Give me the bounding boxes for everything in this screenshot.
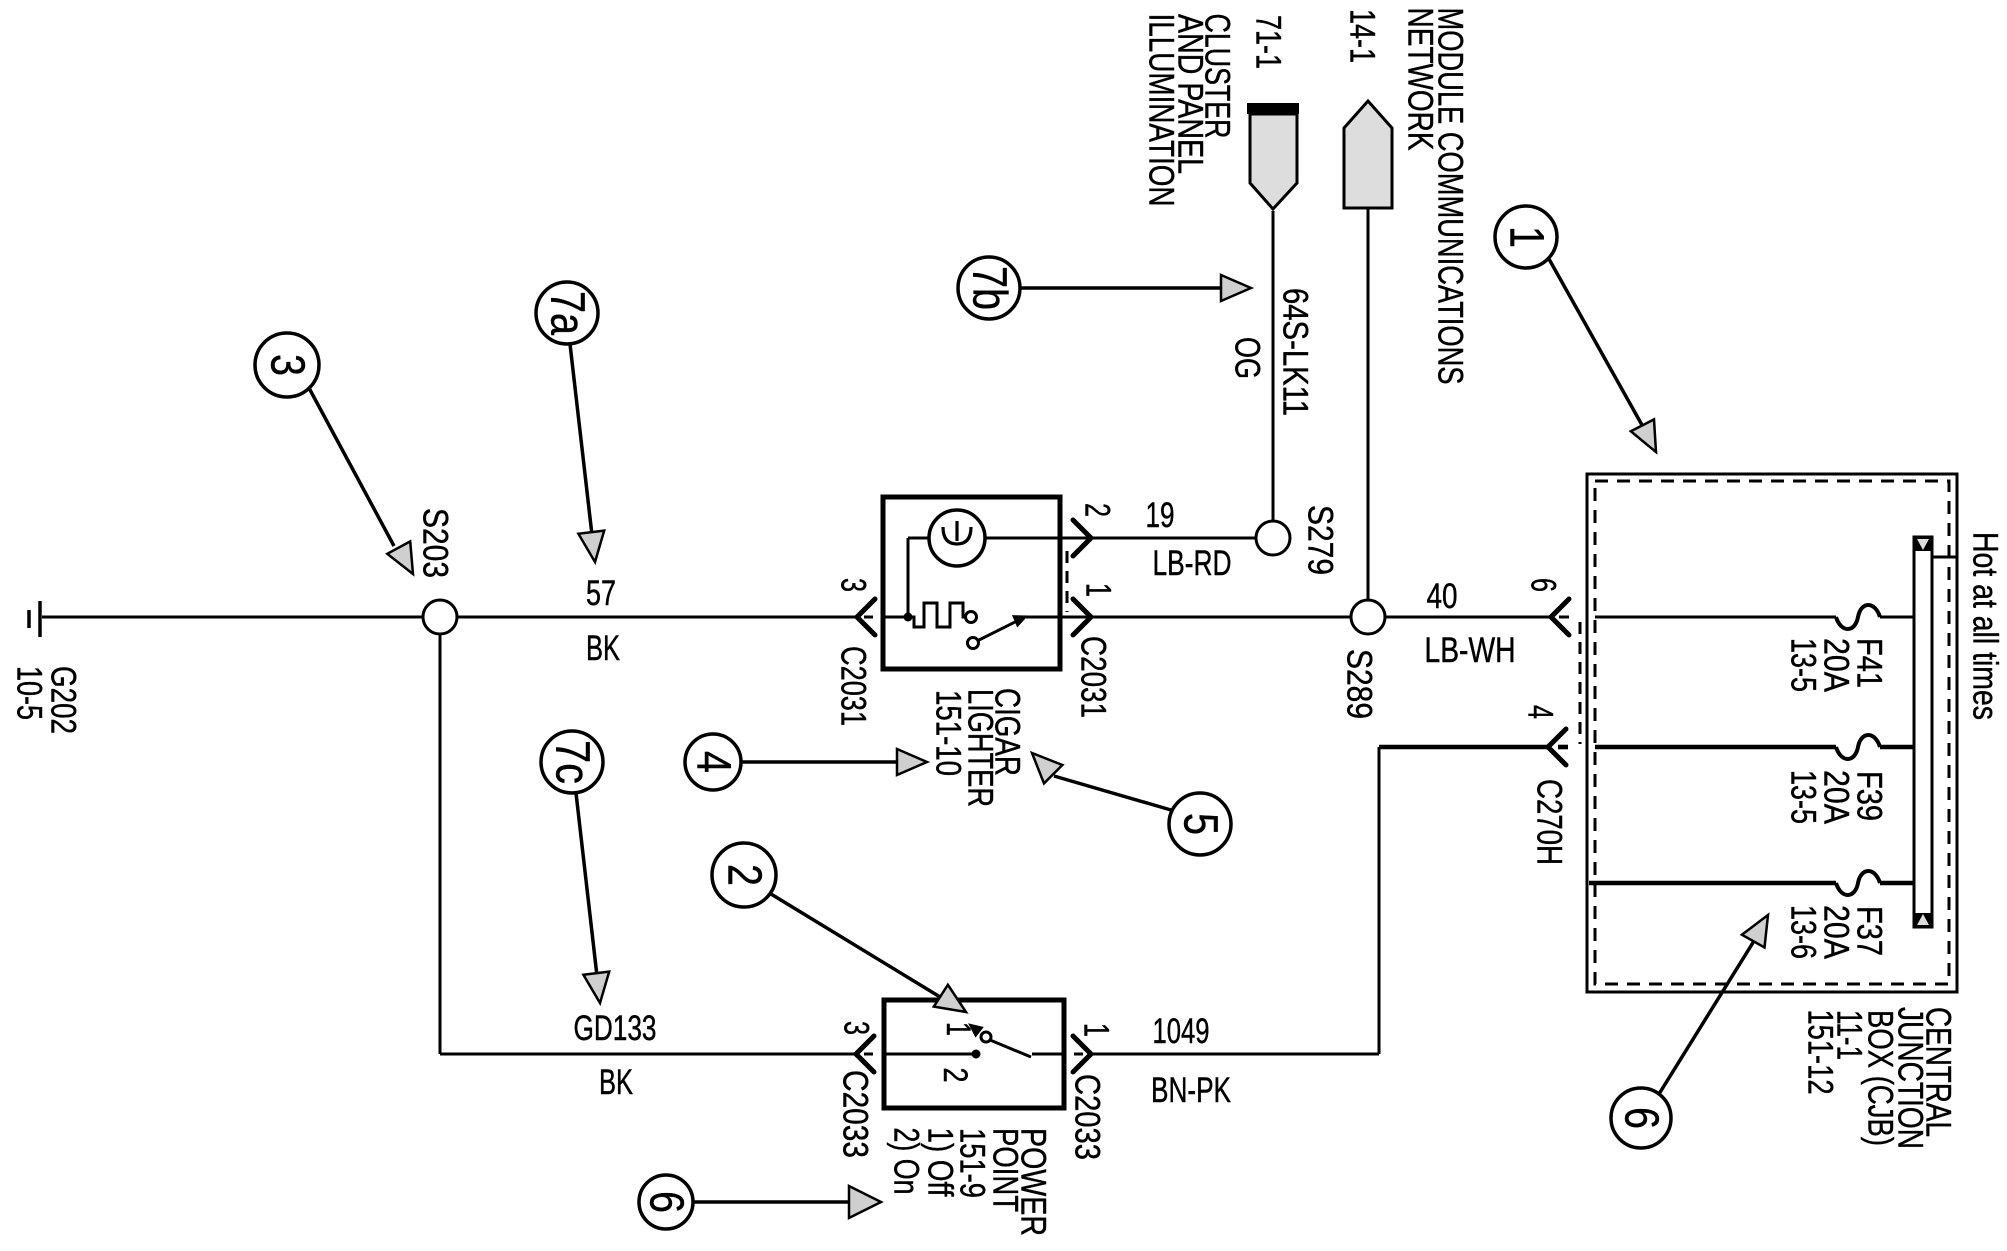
svg-text:2: 2 [1078, 503, 1117, 517]
svg-text:71-1: 71-1 [1249, 15, 1288, 69]
svg-text:7c: 7c [546, 740, 599, 784]
svg-text:BK: BK [599, 1063, 633, 1102]
svg-text:OG: OG [1228, 337, 1267, 379]
svg-text:19: 19 [1146, 496, 1175, 535]
svg-text:6: 6 [1524, 578, 1563, 592]
svg-text:64S-LK11: 64S-LK11 [1276, 288, 1315, 416]
svg-text:ILLUMINATION: ILLUMINATION [1142, 14, 1181, 207]
svg-text:2: 2 [936, 1068, 974, 1083]
svg-text:13-6: 13-6 [1784, 905, 1823, 959]
svg-text:GD133: GD133 [574, 1009, 657, 1048]
svg-text:C2031: C2031 [834, 646, 873, 726]
svg-text:3: 3 [261, 354, 314, 376]
svg-text:151-12: 151-12 [1801, 1010, 1840, 1095]
svg-text:57: 57 [586, 574, 616, 613]
svg-text:C270H: C270H [1530, 779, 1569, 865]
svg-text:S289: S289 [1340, 649, 1379, 719]
svg-text:13-5: 13-5 [1784, 638, 1823, 692]
svg-text:1: 1 [1077, 1023, 1116, 1037]
svg-text:10-5: 10-5 [10, 666, 49, 720]
svg-text:1049: 1049 [1153, 1012, 1210, 1051]
svg-text:S279: S279 [1301, 505, 1340, 575]
svg-text:1: 1 [1079, 583, 1118, 597]
svg-text:5: 5 [1174, 813, 1227, 835]
svg-text:1: 1 [939, 1022, 977, 1036]
svg-text:6: 6 [640, 1191, 693, 1213]
svg-text:14-1: 14-1 [1343, 9, 1382, 63]
svg-text:LB-WH: LB-WH [1425, 631, 1516, 670]
svg-text:2: 2 [718, 864, 771, 886]
svg-text:BN-PK: BN-PK [1151, 1071, 1231, 1110]
svg-text:NETWORK: NETWORK [1401, 8, 1440, 151]
svg-text:BK: BK [586, 629, 620, 668]
svg-text:4: 4 [1521, 705, 1560, 719]
svg-text:Hot at all times: Hot at all times [1966, 532, 2005, 720]
svg-text:3: 3 [837, 1021, 876, 1035]
svg-text:6: 6 [1615, 1107, 1668, 1129]
svg-text:S203: S203 [416, 508, 455, 578]
svg-text:151-10: 151-10 [929, 690, 968, 776]
svg-text:C2031: C2031 [1074, 636, 1113, 718]
svg-text:3: 3 [834, 578, 873, 592]
svg-text:7a: 7a [541, 291, 594, 335]
svg-text:4: 4 [687, 751, 740, 773]
svg-text:C2033: C2033 [1068, 1074, 1107, 1160]
svg-text:7b: 7b [963, 266, 1016, 310]
svg-text:13-5: 13-5 [1784, 770, 1823, 824]
svg-text:LB-RD: LB-RD [1153, 544, 1232, 583]
svg-text:1: 1 [1500, 226, 1553, 248]
svg-text:C2033: C2033 [836, 1070, 875, 1158]
svg-text:40: 40 [1427, 577, 1458, 616]
svg-text:2) On: 2) On [887, 1128, 926, 1195]
